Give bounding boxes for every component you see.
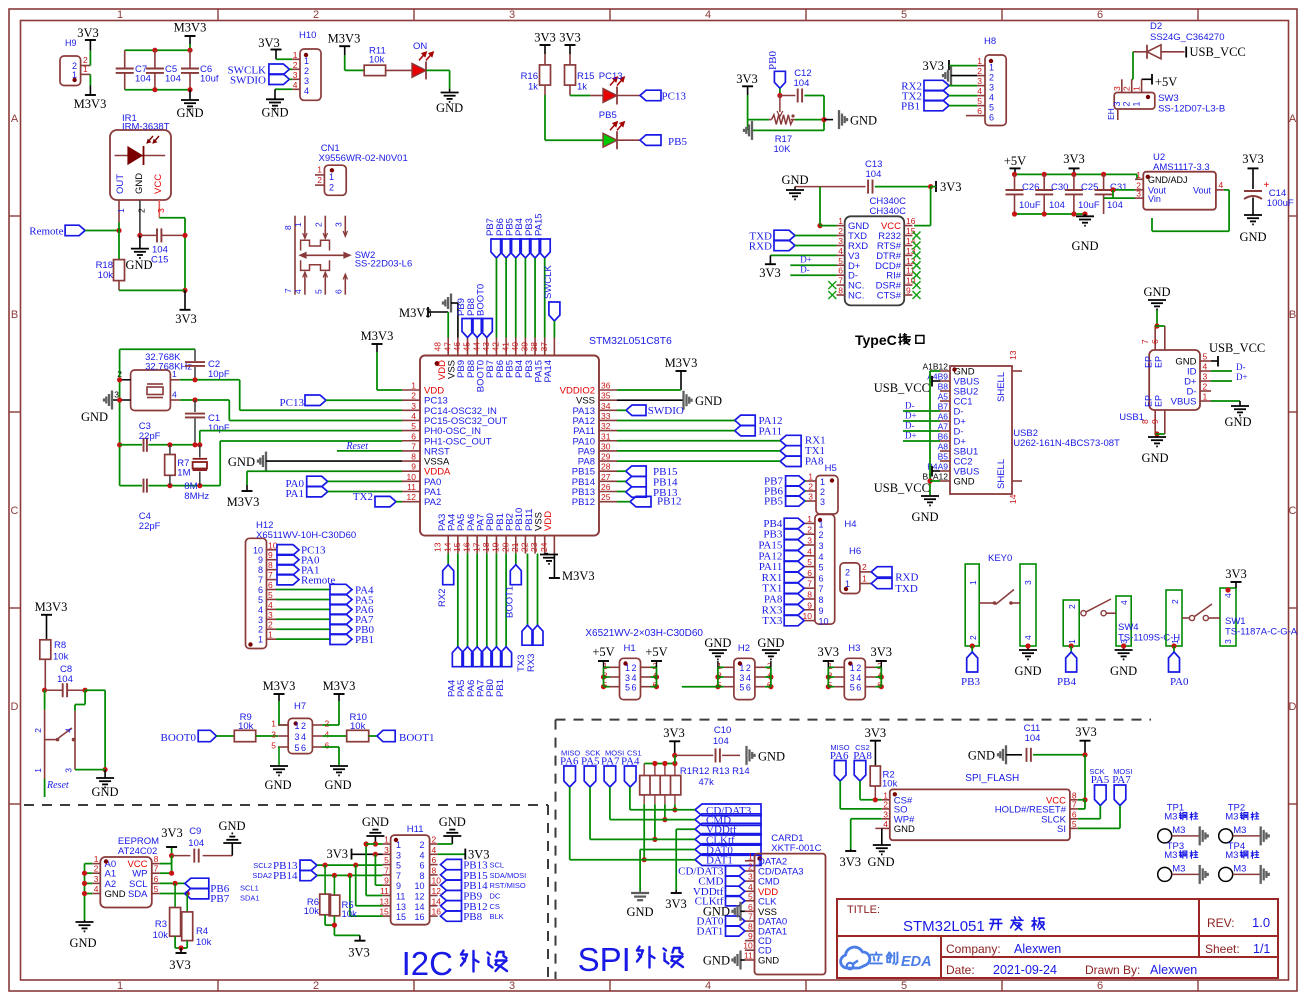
svg-text:GND: GND bbox=[91, 785, 118, 799]
svg-text:3V3: 3V3 bbox=[77, 26, 99, 40]
power M3V3 at MCU VDDIO2 bbox=[665, 356, 698, 390]
svg-text:+5V: +5V bbox=[1004, 154, 1026, 168]
wire TX1 to MCU pin30 bbox=[617, 450, 780, 452]
svg-text:H7: H7 bbox=[294, 701, 306, 712]
net flag RX1 TX1 PA8 triple bbox=[780, 435, 826, 468]
wire top rail C7 C5 C6 bbox=[125, 48, 193, 53]
wire EEPROM SDA to PB7 bbox=[160, 891, 190, 896]
svg-text:B5: B5 bbox=[938, 452, 949, 462]
svg-text:PB4: PB4 bbox=[1057, 676, 1076, 688]
svg-text:PB5: PB5 bbox=[599, 110, 617, 121]
svg-text:3V3: 3V3 bbox=[865, 726, 887, 740]
svg-text:20: 20 bbox=[500, 542, 510, 552]
svg-text:6: 6 bbox=[258, 585, 263, 595]
svg-text:4: 4 bbox=[293, 289, 303, 294]
capacitor C4 bbox=[139, 479, 161, 532]
wire 3V3 to resistor pack bbox=[674, 755, 676, 763]
svg-text:OUT: OUT bbox=[115, 174, 126, 194]
net flag PA0 under SW1 bbox=[1169, 643, 1190, 688]
svg-text:PB5: PB5 bbox=[668, 136, 687, 148]
net flag PA1 at MCU bbox=[285, 486, 327, 500]
svg-text:CLK: CLK bbox=[758, 896, 777, 907]
svg-text:16: 16 bbox=[414, 912, 424, 922]
switch SW1 TS-1187A-C-G-A bbox=[1166, 588, 1298, 646]
wire crystal top rail bbox=[120, 348, 195, 350]
svg-text:SDA1: SDA1 bbox=[240, 894, 260, 903]
svg-text:GND: GND bbox=[228, 455, 255, 469]
wire M3V3 to MCU pin1 bbox=[377, 389, 402, 391]
net flag PB4 at H4 bbox=[763, 518, 804, 530]
wire PB13 to MCU pin26 bbox=[617, 491, 626, 493]
net flag PB8 at MCU bbox=[466, 298, 483, 337]
svg-text:GND: GND bbox=[1239, 230, 1266, 244]
net flag TX3 at H4 bbox=[762, 615, 804, 627]
net flag PB5 at MCU top bbox=[504, 218, 521, 258]
svg-text:3V3: 3V3 bbox=[840, 855, 862, 869]
net flag PB3 under KEY0 bbox=[961, 643, 980, 688]
svg-text:32.768KHz: 32.768KHz bbox=[145, 362, 192, 373]
net flag PB8 at H11 bbox=[441, 911, 504, 923]
ground arrow right of R17 bbox=[839, 110, 877, 129]
svg-text:3: 3 bbox=[1112, 86, 1122, 91]
switch SW3 SS-12D07-L3-B bbox=[1106, 79, 1225, 120]
wire R13 to CMD row bbox=[610, 787, 695, 822]
svg-text:9: 9 bbox=[807, 600, 812, 610]
wire 8MHz top row bbox=[120, 442, 203, 447]
svg-text:3: 3 bbox=[94, 874, 99, 884]
capacitor C31 bbox=[1095, 174, 1128, 214]
svg-text:6: 6 bbox=[432, 855, 437, 865]
net flag PA7 at H12 bbox=[276, 614, 374, 626]
IR receiver IR1 IRM-3638T bbox=[110, 113, 171, 235]
svg-text:2: 2 bbox=[1122, 86, 1132, 91]
svg-text:D2: D2 bbox=[1150, 21, 1162, 32]
svg-text:+5V: +5V bbox=[645, 645, 667, 659]
wire H9 pin2 to 3V3 bbox=[89, 51, 91, 66]
power M3V3 left of H7 bbox=[263, 679, 296, 725]
svg-text:40: 40 bbox=[510, 342, 520, 352]
wire PB15 to MCU pin28 bbox=[617, 470, 626, 472]
svg-text:KEY0: KEY0 bbox=[988, 553, 1012, 564]
power M3V3 at MCU pin48 bbox=[399, 306, 448, 320]
svg-text:2: 2 bbox=[258, 625, 263, 635]
wire PB14 to MCU pin27 bbox=[617, 480, 626, 482]
svg-text:4: 4 bbox=[301, 732, 306, 742]
svg-text:5: 5 bbox=[411, 421, 416, 431]
wire PB5 to MCU bbox=[515, 258, 517, 338]
svg-text:GND: GND bbox=[968, 749, 995, 763]
svg-text:EDA: EDA bbox=[901, 954, 932, 970]
svg-text:D-: D- bbox=[905, 421, 915, 431]
svg-text:GND: GND bbox=[439, 815, 466, 829]
net flag CD/DAT3 at CARD1 bbox=[678, 866, 745, 878]
header H6 bbox=[840, 546, 871, 594]
svg-text:9: 9 bbox=[748, 931, 753, 941]
svg-text:1k: 1k bbox=[528, 82, 538, 93]
wire H11 pin9 to 3V3 bbox=[375, 854, 382, 885]
svg-text:9: 9 bbox=[411, 462, 416, 472]
svg-text:C30: C30 bbox=[1051, 182, 1068, 193]
svg-text:2: 2 bbox=[325, 719, 330, 729]
power 3V3 right of C13 bbox=[936, 180, 962, 194]
svg-text:4: 4 bbox=[1223, 593, 1233, 598]
svg-text:12: 12 bbox=[407, 492, 417, 502]
svg-text:3V3: 3V3 bbox=[326, 847, 348, 861]
header H2 bbox=[682, 636, 785, 700]
svg-text:5: 5 bbox=[819, 563, 824, 573]
svg-text:100uF: 100uF bbox=[1267, 198, 1294, 209]
svg-text:A5: A5 bbox=[938, 392, 949, 402]
net flag PA6 at MCU bottom bbox=[466, 554, 483, 697]
USB connector USB2 U262-161N-4BCS73-08T bbox=[922, 350, 1120, 504]
svg-text:2: 2 bbox=[313, 980, 319, 992]
net flag Remote at H12 bbox=[277, 574, 335, 586]
svg-text:10: 10 bbox=[819, 617, 829, 627]
svg-text:A7: A7 bbox=[938, 422, 949, 432]
ground above USB1 bbox=[1143, 285, 1170, 309]
svg-text:16: 16 bbox=[906, 216, 916, 226]
header H5 bbox=[806, 463, 838, 514]
svg-text:3: 3 bbox=[295, 732, 300, 742]
svg-text:1: 1 bbox=[807, 514, 812, 524]
svg-text:1: 1 bbox=[94, 854, 99, 864]
net flag PA8 CS2 at flash bbox=[853, 743, 872, 781]
net flag PA7 MOSI at flash bbox=[1112, 767, 1132, 806]
svg-text:4: 4 bbox=[746, 673, 751, 683]
svg-text:16: 16 bbox=[462, 542, 472, 552]
svg-text:7: 7 bbox=[748, 912, 753, 922]
wire H7 pin6 to ground bbox=[322, 747, 339, 766]
svg-text:GND: GND bbox=[218, 819, 245, 833]
svg-text:4: 4 bbox=[705, 9, 711, 21]
wire H7 pin5 to ground bbox=[277, 747, 280, 766]
wire C12 to R17 right and GND bbox=[795, 96, 833, 131]
svg-text:6: 6 bbox=[325, 741, 330, 751]
svg-text:2: 2 bbox=[977, 66, 982, 76]
svg-text:3: 3 bbox=[1223, 639, 1233, 644]
label SPI peripherals bbox=[578, 941, 683, 978]
svg-text:10k: 10k bbox=[882, 779, 898, 790]
svg-text:3: 3 bbox=[384, 845, 389, 855]
svg-text:CS: CS bbox=[490, 902, 500, 911]
svg-text:10uf: 10uf bbox=[200, 74, 219, 85]
svg-text:RX2: RX2 bbox=[437, 589, 448, 607]
wire IR1 pin3 VCC to 3V3 rail bbox=[159, 218, 187, 293]
svg-text:BOOT1: BOOT1 bbox=[505, 586, 516, 618]
svg-text:B1A12: B1A12 bbox=[922, 472, 948, 482]
svg-text:SPI: SPI bbox=[578, 941, 631, 978]
svg-text:BLK: BLK bbox=[490, 912, 504, 921]
svg-text:C10: C10 bbox=[714, 725, 731, 736]
svg-text:GND: GND bbox=[1071, 239, 1098, 253]
net flag PA7 MOSI bbox=[601, 749, 624, 788]
svg-text:7: 7 bbox=[838, 276, 843, 286]
svg-text:3: 3 bbox=[268, 610, 273, 620]
svg-text:6: 6 bbox=[746, 683, 751, 693]
test point TP2 bbox=[1219, 802, 1269, 845]
svg-text:RXD: RXD bbox=[895, 572, 918, 584]
svg-text:2: 2 bbox=[807, 525, 812, 535]
svg-text:7: 7 bbox=[268, 570, 273, 580]
svg-text:Reset: Reset bbox=[46, 780, 69, 791]
svg-text:5: 5 bbox=[625, 683, 630, 693]
svg-text:2: 2 bbox=[432, 835, 437, 845]
svg-text:7: 7 bbox=[283, 288, 293, 293]
test point TP4 bbox=[1219, 841, 1269, 884]
svg-text:GND: GND bbox=[1143, 285, 1170, 299]
wire crystal pin4 to MCU PC15 bbox=[180, 397, 402, 420]
power +5V at SW3 bbox=[1142, 74, 1178, 89]
net flag RX3 at H4 bbox=[762, 604, 804, 616]
wire R17 bottom row bbox=[748, 120, 824, 131]
svg-text:1.0: 1.0 bbox=[1252, 915, 1270, 930]
power 3V3 at R16 bbox=[534, 31, 556, 55]
svg-text:1: 1 bbox=[317, 165, 322, 175]
svg-text:1: 1 bbox=[268, 630, 273, 640]
svg-text:M3: M3 bbox=[1164, 811, 1177, 822]
svg-text:42: 42 bbox=[491, 342, 501, 352]
svg-text:D+: D+ bbox=[905, 431, 917, 441]
resistor pack R1 R12 R13 R14 bbox=[640, 761, 750, 804]
power 3V3 at R15 bbox=[559, 31, 581, 55]
wire PB3 to MCU bbox=[534, 258, 536, 338]
svg-text:4: 4 bbox=[838, 246, 843, 256]
wire M3V3 to cap rail bbox=[189, 44, 191, 50]
svg-text:7: 7 bbox=[411, 441, 416, 451]
svg-text:SDA/MOSI: SDA/MOSI bbox=[490, 871, 527, 880]
svg-text:PB5: PB5 bbox=[764, 496, 783, 508]
crystal X2 8MHz bbox=[184, 445, 209, 502]
svg-text:GND: GND bbox=[69, 936, 96, 950]
wire LED to PC13 flag bbox=[617, 95, 640, 97]
header H8 bbox=[977, 36, 1006, 126]
ground below USB1 bbox=[1141, 431, 1168, 465]
net flag SWCLK at MCU bbox=[543, 265, 560, 321]
svg-text:BOOT0: BOOT0 bbox=[161, 732, 197, 744]
wire H11 pin13 to SCL2 bbox=[356, 865, 383, 906]
svg-text:10uF: 10uF bbox=[1019, 200, 1041, 211]
svg-text:3: 3 bbox=[304, 76, 309, 86]
net flag VDDtf at CARD1 bbox=[693, 886, 745, 898]
svg-text:Vout: Vout bbox=[1193, 185, 1212, 195]
resistor R4 bbox=[182, 894, 212, 949]
header H11 bbox=[379, 824, 441, 925]
ground below DAT0 bbox=[626, 891, 653, 919]
svg-text:GND: GND bbox=[867, 855, 894, 869]
net flag TX2 at MCU bbox=[353, 491, 396, 507]
svg-text:1: 1 bbox=[271, 719, 276, 729]
svg-text:D-: D- bbox=[800, 264, 810, 274]
svg-text:5: 5 bbox=[258, 595, 263, 605]
LED PC13 bbox=[599, 71, 625, 105]
svg-text:3: 3 bbox=[989, 83, 994, 93]
wire SWDIO to H10 pin3 bbox=[289, 78, 292, 80]
svg-text:3V3: 3V3 bbox=[818, 645, 840, 659]
svg-text:B8: B8 bbox=[938, 382, 949, 392]
svg-text:4: 4 bbox=[977, 86, 982, 96]
net flag PB3 at MCU top bbox=[524, 218, 541, 258]
svg-text:SCL2: SCL2 bbox=[253, 861, 272, 870]
svg-text:10: 10 bbox=[432, 876, 442, 886]
svg-text:3V3: 3V3 bbox=[534, 31, 556, 45]
svg-text:3: 3 bbox=[293, 70, 298, 80]
svg-text:U262-161N-4BCS73-08T: U262-161N-4BCS73-08T bbox=[1013, 438, 1120, 449]
switch KEY0 bbox=[965, 553, 1036, 646]
svg-text:IRM-3638T: IRM-3638T bbox=[122, 122, 170, 133]
net flag PA4 CS1 bbox=[621, 749, 642, 788]
net flag PC13 at MCU bbox=[280, 395, 326, 409]
svg-text:GND: GND bbox=[894, 824, 915, 835]
wire PC13 to MCU pin2 bbox=[326, 399, 402, 401]
svg-text:6: 6 bbox=[334, 289, 344, 294]
test point TP1 bbox=[1158, 802, 1208, 845]
svg-text:PA2: PA2 bbox=[424, 497, 441, 508]
svg-text:R8: R8 bbox=[54, 640, 66, 651]
svg-text:B7: B7 bbox=[938, 402, 949, 412]
svg-text:SW3: SW3 bbox=[1158, 93, 1179, 104]
svg-text:2: 2 bbox=[301, 721, 306, 731]
svg-text:9: 9 bbox=[906, 286, 911, 296]
svg-text:BOOT0: BOOT0 bbox=[476, 284, 487, 316]
svg-text:5: 5 bbox=[396, 861, 401, 871]
wire Reset to MCU NRST bbox=[337, 441, 402, 452]
svg-text:GND: GND bbox=[758, 956, 779, 967]
svg-text:CH340C: CH340C bbox=[870, 206, 907, 217]
svg-text:RXD: RXD bbox=[749, 241, 772, 253]
ground below caps bbox=[1071, 216, 1098, 253]
svg-text:10k: 10k bbox=[350, 721, 366, 732]
svg-text:CTS#: CTS# bbox=[877, 291, 902, 302]
svg-text:10: 10 bbox=[253, 545, 263, 555]
ground below C6 bbox=[176, 90, 203, 120]
resistor R8 bbox=[40, 640, 69, 690]
svg-text:8: 8 bbox=[258, 565, 263, 575]
svg-text:SS24G_C364270: SS24G_C364270 bbox=[1150, 32, 1224, 43]
net flag PB7 at H5 bbox=[764, 476, 806, 488]
svg-text:R4: R4 bbox=[196, 926, 208, 937]
svg-text:6: 6 bbox=[977, 106, 982, 116]
svg-text:2: 2 bbox=[746, 663, 751, 673]
svg-text:7: 7 bbox=[396, 871, 401, 881]
svg-text:1: 1 bbox=[748, 851, 753, 861]
wire PA11 to MCU pin32 bbox=[617, 430, 735, 432]
svg-text:10k: 10k bbox=[342, 909, 358, 920]
svg-text:8: 8 bbox=[819, 595, 824, 605]
capacitor C14 polarized bbox=[1239, 152, 1293, 244]
wire D- net label bbox=[790, 264, 836, 275]
svg-text:1: 1 bbox=[989, 63, 994, 73]
svg-text:10k: 10k bbox=[98, 270, 114, 281]
svg-text:SHELL: SHELL bbox=[996, 372, 1007, 402]
logo LCEDA bbox=[841, 947, 932, 970]
svg-text:8: 8 bbox=[748, 922, 753, 932]
power M3V3 at MCU VDDA bbox=[227, 471, 402, 509]
svg-text:PB0: PB0 bbox=[767, 51, 779, 70]
svg-text:3V3: 3V3 bbox=[1242, 152, 1264, 166]
svg-text:PB1: PB1 bbox=[495, 679, 506, 697]
ground under SW4 bbox=[1110, 643, 1137, 678]
wire PA6 to flash SO bbox=[840, 781, 882, 809]
net flag PB15 PB14 PB13 triple bbox=[626, 466, 678, 499]
net flag DAT1 at CARD1 bbox=[697, 926, 745, 938]
svg-text:5: 5 bbox=[850, 683, 855, 693]
svg-text:6: 6 bbox=[838, 266, 843, 276]
svg-text:4: 4 bbox=[807, 546, 812, 556]
svg-text:10k: 10k bbox=[238, 721, 254, 732]
ground arrow at MCU VSSA bbox=[228, 452, 402, 471]
svg-text:3: 3 bbox=[1136, 189, 1141, 199]
net flag PA15 at H4 bbox=[758, 540, 804, 552]
svg-text:19: 19 bbox=[491, 542, 501, 552]
svg-text:11: 11 bbox=[744, 951, 753, 961]
svg-text:8: 8 bbox=[411, 452, 416, 462]
svg-text:9: 9 bbox=[258, 555, 263, 565]
ground under KEY0 bbox=[1014, 643, 1041, 678]
svg-text:M3: M3 bbox=[1172, 863, 1185, 874]
net flag PB12 bbox=[630, 496, 681, 508]
svg-text:TypeC: TypeC bbox=[855, 332, 897, 348]
power 3V3 at H10 bbox=[258, 36, 281, 59]
svg-text:3: 3 bbox=[739, 673, 744, 683]
svg-text:10: 10 bbox=[414, 881, 424, 891]
svg-text:6: 6 bbox=[748, 902, 753, 912]
svg-text:2: 2 bbox=[268, 620, 273, 630]
wire M3V3 to H7 pin1 bbox=[277, 724, 280, 726]
net flag BOOT1 at MCU bottom bbox=[505, 554, 522, 618]
svg-text:37: 37 bbox=[539, 342, 549, 352]
svg-text:GND: GND bbox=[626, 905, 653, 919]
net flag PB14 SDA2 bbox=[252, 870, 317, 882]
power 3V3 at H8 bbox=[922, 59, 949, 73]
net flag PA12 PA11 pair bbox=[735, 415, 783, 438]
wire SWDIO to MCU pin34 bbox=[617, 409, 626, 411]
resistor R9 bbox=[234, 712, 255, 742]
wire Vout pin2 bbox=[1110, 187, 1135, 198]
net flag CMD at CARD1 bbox=[698, 876, 745, 888]
net flag PA11 at H4 bbox=[759, 561, 804, 573]
svg-text:R3: R3 bbox=[155, 919, 167, 930]
svg-text:M3V3: M3V3 bbox=[74, 97, 107, 111]
net flag TXD at CH340C bbox=[749, 230, 795, 242]
svg-text:12: 12 bbox=[432, 886, 442, 896]
svg-text:23: 23 bbox=[529, 542, 539, 552]
svg-text:10K: 10K bbox=[774, 144, 792, 155]
svg-text:22: 22 bbox=[520, 542, 530, 552]
svg-text:4: 4 bbox=[748, 882, 753, 892]
svg-text:1: 1 bbox=[838, 216, 843, 226]
svg-text:PB14: PB14 bbox=[273, 870, 298, 882]
svg-text:Vin: Vin bbox=[1148, 194, 1161, 204]
svg-text:EP: EP bbox=[1144, 395, 1154, 407]
switch SW4 TS-1109S-C-H bbox=[1063, 596, 1180, 646]
svg-text:3V3: 3V3 bbox=[663, 726, 685, 740]
IC U5 SPI_FLASH bbox=[882, 773, 1078, 840]
svg-text:PA15: PA15 bbox=[533, 213, 544, 236]
svg-text:M3: M3 bbox=[1164, 850, 1177, 861]
power 3V3 at R2 bbox=[865, 726, 887, 766]
svg-text:47k: 47k bbox=[699, 777, 715, 788]
svg-text:10k: 10k bbox=[53, 652, 69, 663]
net flag PA5 at H12 bbox=[276, 594, 374, 606]
wire TX2 to H8 pin4 bbox=[949, 95, 977, 97]
svg-text:3: 3 bbox=[838, 236, 843, 246]
svg-text:R1R12 R13 R14: R1R12 R13 R14 bbox=[680, 766, 750, 777]
net flag Remote bbox=[29, 225, 85, 237]
svg-text:PB7: PB7 bbox=[210, 893, 229, 905]
test point TP3 bbox=[1158, 841, 1208, 884]
svg-text:13: 13 bbox=[379, 896, 389, 906]
power 3V3 below R3 R4 bbox=[169, 953, 191, 972]
